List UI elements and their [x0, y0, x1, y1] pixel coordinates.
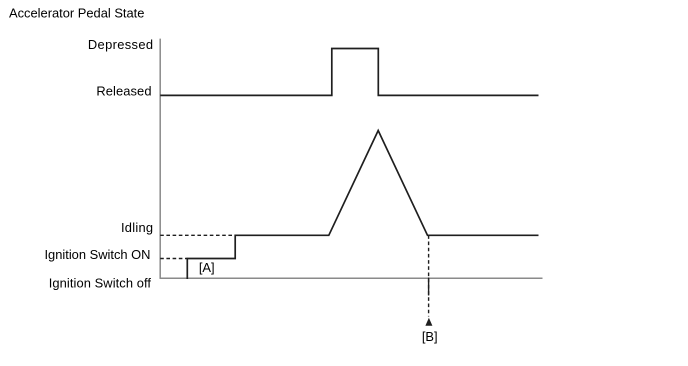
svg-text:Depressed: Depressed: [88, 37, 154, 52]
dashed guide idling level: [160, 234, 235, 236]
solid tick below baseline at B: [428, 278, 430, 296]
baseline time axis: [160, 277, 543, 279]
svg-text:Ignition Switch ON: Ignition Switch ON: [44, 247, 150, 262]
svg-text:Accelerator Pedal State: Accelerator Pedal State: [9, 5, 144, 20]
svg-text:[B]: [B]: [422, 329, 438, 344]
dashed vertical line B: [428, 235, 430, 316]
engine speed waveform: [187, 131, 538, 280]
arrowhead B: [425, 318, 432, 326]
svg-text:Idling: Idling: [121, 220, 153, 235]
dashed guide ignition switch ON level: [160, 258, 187, 260]
svg-text:Released: Released: [96, 84, 151, 99]
svg-text:Ignition Switch off: Ignition Switch off: [49, 275, 152, 290]
pedal state waveform: [160, 49, 538, 96]
vertical axis: [159, 39, 161, 279]
svg-text:[A]: [A]: [199, 260, 215, 275]
